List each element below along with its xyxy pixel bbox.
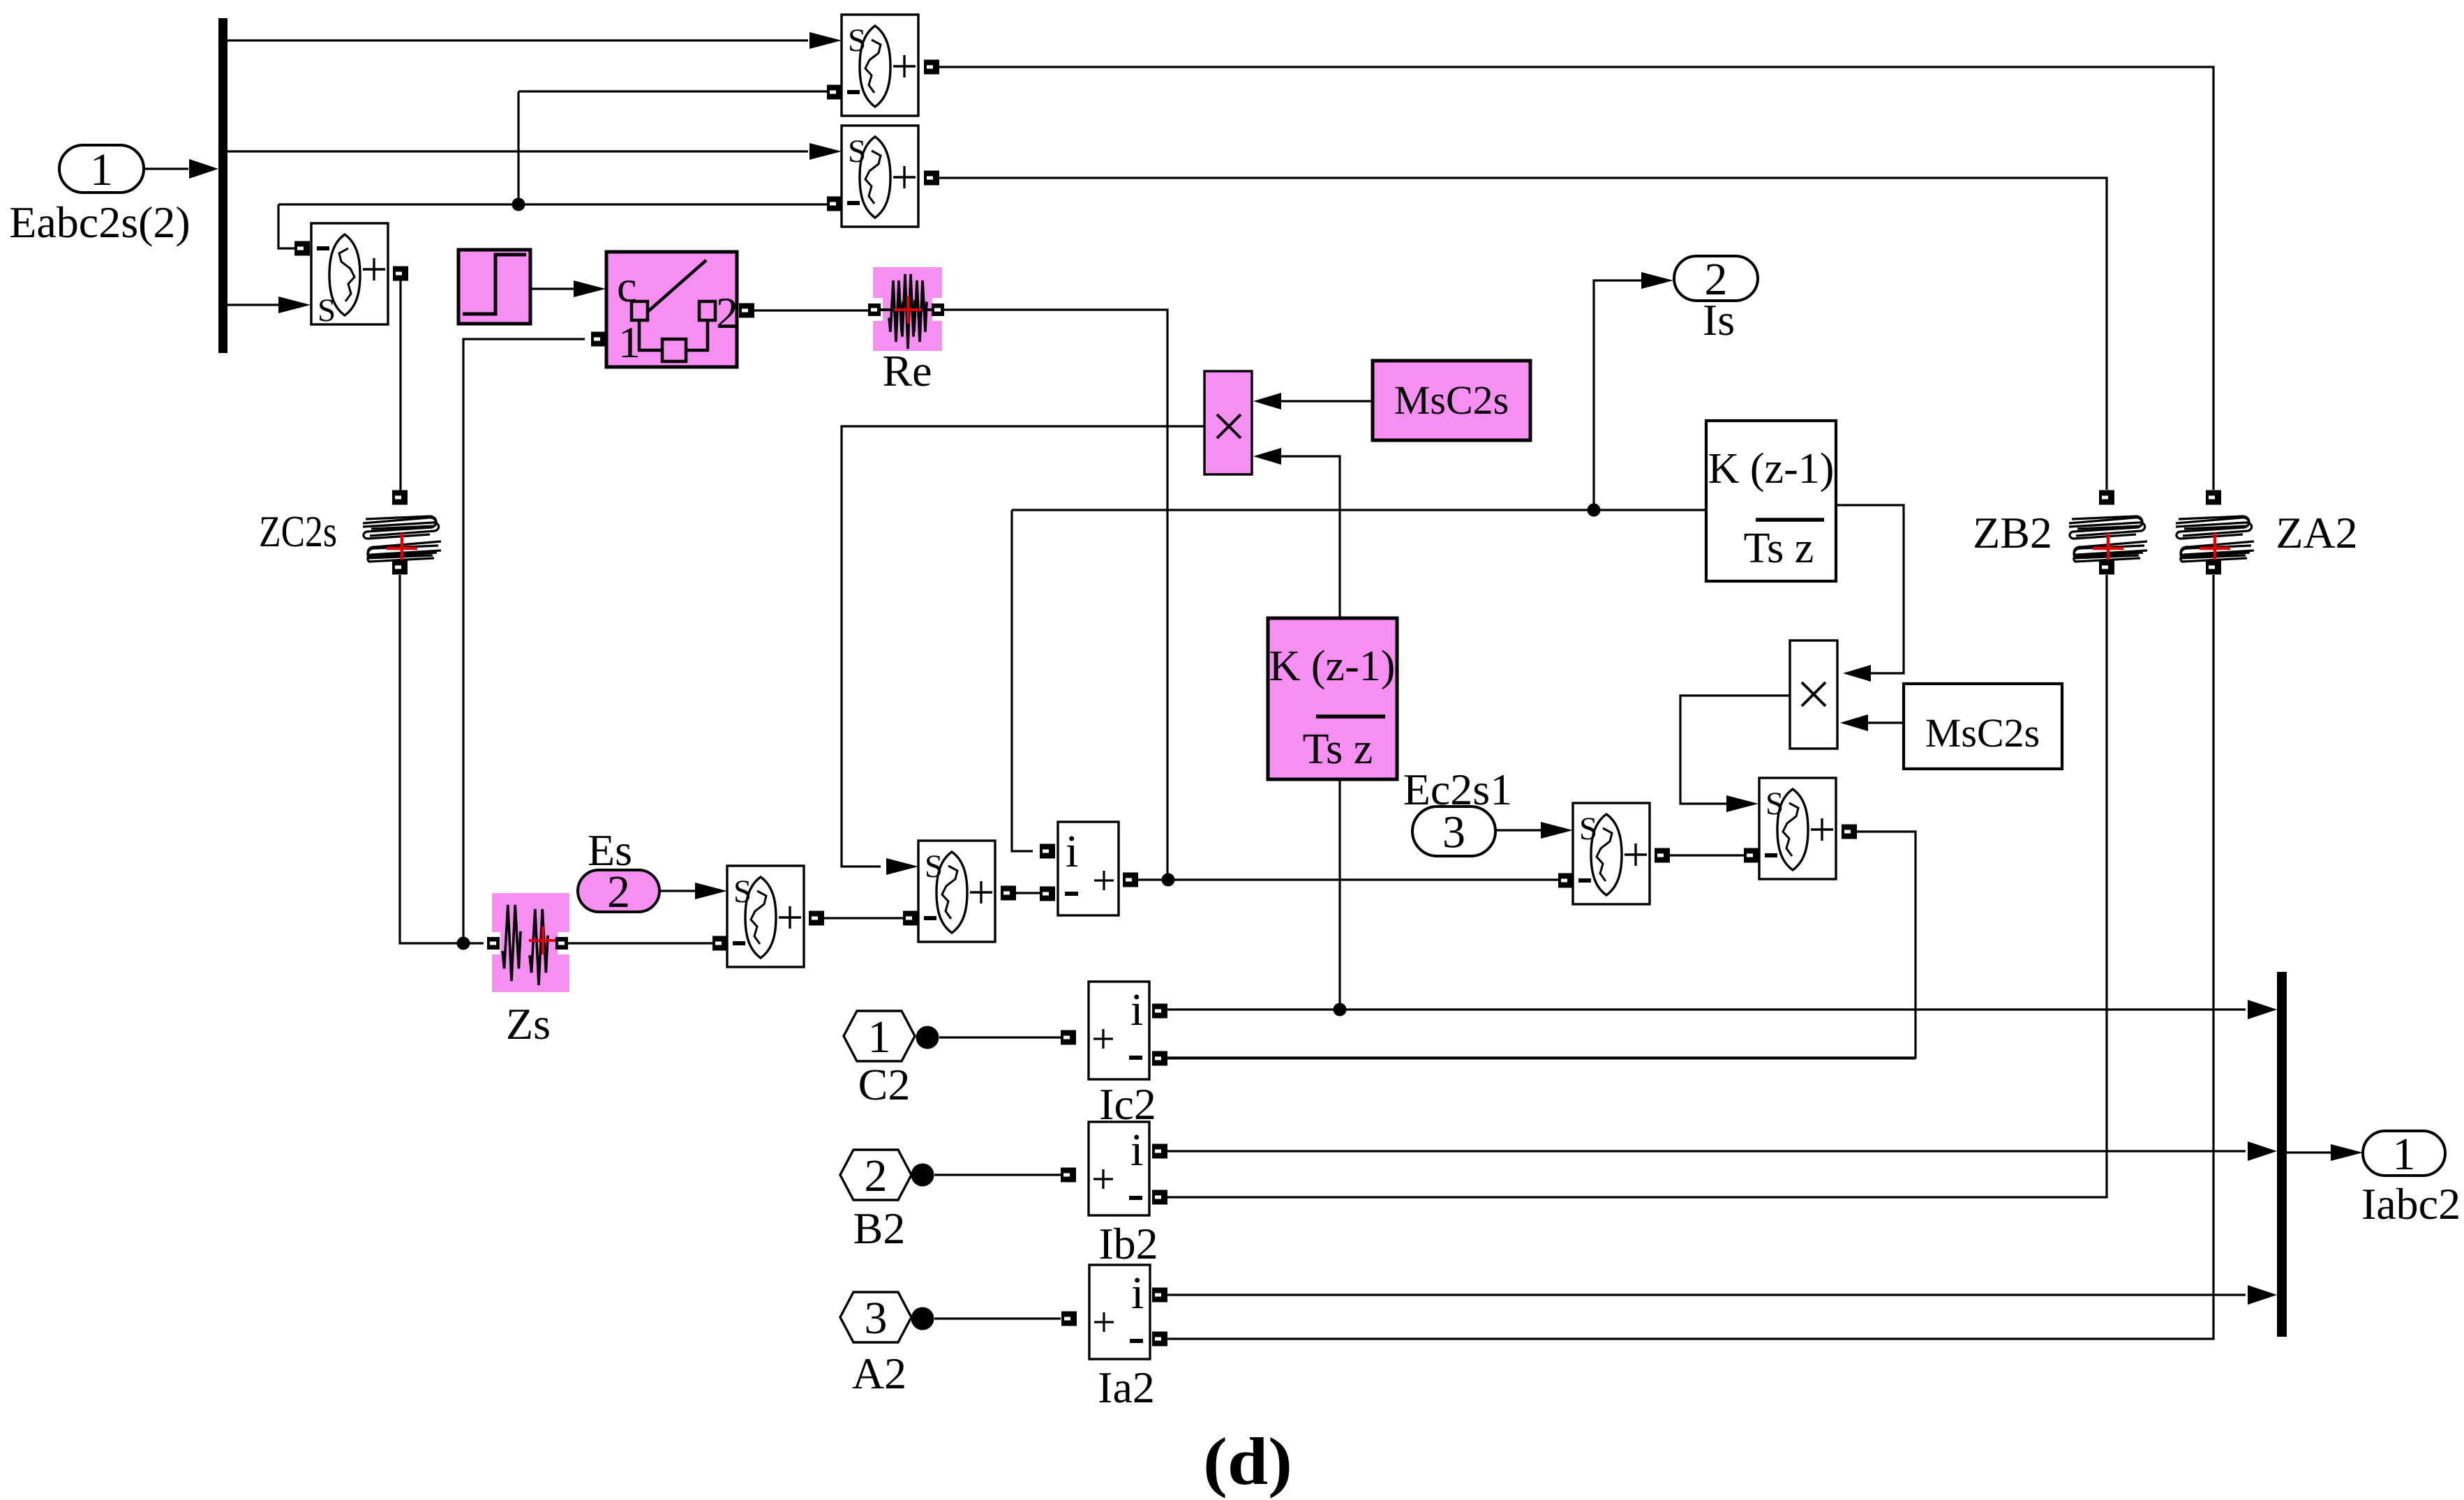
- junction: [1162, 873, 1175, 887]
- wire P2 out to sum S5: [1680, 696, 1790, 804]
- connection dot A2: [911, 1307, 934, 1330]
- wire: [824, 917, 905, 919]
- wire: [934, 1317, 1061, 1319]
- sum block S1: [842, 15, 918, 116]
- wire: [659, 890, 696, 892]
- junction: [457, 937, 470, 950]
- wire: [568, 942, 715, 944]
- wire: [1868, 721, 1904, 723]
- wire K1 out to P1: [1281, 456, 1340, 617]
- svg-text:i: i: [1130, 1125, 1143, 1176]
- current measure block I2 Ib2: [1089, 1122, 1149, 1215]
- port S6 minus: [712, 936, 728, 951]
- wire I3 i-out to mux: [1167, 1293, 2246, 1296]
- port switch out: [739, 303, 754, 318]
- svg-text:Ib2: Ib2: [1098, 1219, 1158, 1268]
- wire inport1 to demux: [144, 167, 188, 170]
- svg-text:i: i: [1066, 826, 1078, 877]
- svg-text:MsC2s: MsC2s: [1925, 710, 2040, 756]
- port oval Outport Es 2: [578, 867, 659, 917]
- port Zs in: [487, 937, 500, 950]
- wire: [227, 150, 808, 152]
- wire to sum S3 minus: [278, 204, 297, 248]
- port I3 i-out: [1152, 1288, 1167, 1303]
- svg-text:1: 1: [2393, 1129, 2416, 1180]
- wire: [227, 303, 281, 306]
- wire to outport Is: [1594, 280, 1644, 510]
- wire: [530, 287, 574, 290]
- wire node to K2: [1012, 509, 1706, 511]
- port oval Outport 1 Iabc2: [2363, 1129, 2445, 1180]
- svg-text:ZA2: ZA2: [2276, 508, 2357, 557]
- svg-text:3: 3: [1442, 807, 1465, 858]
- impedance icon ZA2: [2176, 516, 2254, 562]
- sum block S2: [842, 126, 918, 227]
- gain block MsC2s 1: [1373, 361, 1530, 440]
- svg-text:Zs: Zs: [506, 999, 551, 1049]
- sum block S3: [311, 223, 388, 329]
- port S3 out: [393, 267, 408, 281]
- port I4 in1: [1040, 844, 1055, 859]
- current measure block I3 Ia2: [1089, 1265, 1150, 1359]
- wire I2 i-out to mux: [1167, 1150, 2246, 1152]
- port S4 minus: [1558, 873, 1574, 888]
- svg-text:B2: B2: [853, 1203, 906, 1253]
- product block P2: [1790, 640, 1837, 749]
- port I1 i-out: [1152, 1004, 1167, 1019]
- connection dot B2: [911, 1164, 934, 1187]
- port S2 minus: [827, 197, 842, 211]
- gain block MsC2s 2: [1904, 684, 2062, 769]
- discrete derivative block K1 (pink): [1268, 618, 1397, 779]
- port oval Outport 2 Is: [1674, 254, 1758, 305]
- port I2 plus: [1061, 1168, 1076, 1183]
- impedance icon ZC2s: [363, 516, 441, 562]
- current measure block I4: [1058, 822, 1119, 915]
- Zs impedance block: [492, 893, 569, 992]
- junction: [1334, 1003, 1347, 1017]
- wire S5 out to I1 minus: [1167, 832, 1916, 1058]
- wire to sum S1 minus: [518, 90, 828, 92]
- wire I1 i-out to mux: [1167, 1008, 2246, 1010]
- port I1 minus-out: [1152, 1051, 1167, 1066]
- svg-text:Is: Is: [1703, 295, 1735, 345]
- product block P1: [1204, 371, 1252, 474]
- wire S2 out to ZB2: [939, 178, 2107, 490]
- port S7 minus: [903, 911, 918, 926]
- sum block S5: [1759, 778, 1836, 879]
- wire to switch input 2: [463, 339, 585, 943]
- svg-text:Ts z: Ts z: [1303, 726, 1373, 773]
- svg-text:Iabc2: Iabc2: [2361, 1179, 2461, 1229]
- wire: [1670, 854, 1745, 856]
- port oval Inport 3 Ec2s1: [1412, 807, 1495, 858]
- svg-text:ZC2s: ZC2s: [259, 507, 337, 556]
- port S1 out: [924, 60, 939, 75]
- wire: [1495, 829, 1543, 831]
- switch block: [606, 252, 738, 367]
- port S5 minus: [1744, 848, 1759, 863]
- wire I1 minus to S5 line: [1167, 1057, 1916, 1059]
- wire: [1281, 400, 1373, 402]
- port S5 out: [1842, 825, 1857, 839]
- wire to sum S2 minus: [278, 203, 828, 205]
- port S3 minus: [294, 241, 310, 256]
- port I3 minus-out: [1152, 1332, 1167, 1347]
- svg-text:2: 2: [716, 288, 738, 338]
- port S6 out: [809, 911, 824, 926]
- port switch in2: [591, 332, 606, 347]
- mux bar: [2277, 972, 2287, 1337]
- port I1 plus: [1061, 1030, 1076, 1045]
- wire: [1016, 892, 1040, 894]
- svg-text:i: i: [1130, 984, 1143, 1035]
- impedance icon ZB2: [2069, 516, 2147, 562]
- demux bar (selector): [218, 18, 227, 353]
- wire S3 out to ZC2s: [399, 280, 401, 491]
- port ZA2 bottom: [2206, 560, 2221, 575]
- port Zs out: [555, 937, 568, 950]
- sum block S4: [1573, 803, 1650, 904]
- input hexagon C2: [844, 1011, 915, 1063]
- port ZA2 top: [2206, 490, 2221, 505]
- wire: [939, 1036, 1061, 1038]
- port oval Inport 1 Eabc2s(2): [59, 144, 144, 195]
- svg-text:MsC2s: MsC2s: [1394, 377, 1509, 423]
- port Re in: [868, 303, 881, 316]
- svg-text:i: i: [1131, 1268, 1144, 1319]
- svg-text:ZB2: ZB2: [1973, 508, 2052, 557]
- input hexagon B2: [840, 1150, 911, 1201]
- port S4 out: [1655, 848, 1670, 863]
- port I4 out: [1123, 873, 1138, 887]
- svg-text:K (z-1): K (z-1): [1708, 445, 1835, 493]
- wire P1 out to sum S7: [842, 426, 1204, 867]
- port I3 plus: [1061, 1312, 1077, 1326]
- wire: [2287, 1151, 2332, 1153]
- Re impedance block: [873, 267, 942, 351]
- port I4 minus: [1040, 887, 1055, 901]
- wire Re to node: [944, 310, 1167, 880]
- connection dot C2: [916, 1026, 939, 1049]
- wire I2 minus to ZB2: [1167, 575, 2107, 1197]
- wire node down to I4: [1012, 510, 1033, 851]
- port I2 i-out: [1152, 1144, 1167, 1159]
- current measure block I1 Ic2: [1089, 982, 1149, 1079]
- port ZC2s bottom: [392, 560, 408, 575]
- svg-text:C2: C2: [858, 1060, 911, 1109]
- port S1 minus: [827, 85, 842, 100]
- svg-text:Eabc2s(2): Eabc2s(2): [9, 197, 190, 247]
- svg-text:3: 3: [865, 1293, 888, 1344]
- svg-text:Ts z: Ts z: [1744, 525, 1814, 572]
- port S2 out: [924, 171, 939, 186]
- svg-text:Re: Re: [882, 346, 932, 396]
- svg-text:1: 1: [868, 1012, 891, 1063]
- svg-text:(d): (d): [1203, 1424, 1292, 1499]
- wire I3 minus to ZA2: [1167, 575, 2213, 1339]
- svg-text:A2: A2: [852, 1349, 906, 1398]
- port ZB2 bottom: [2099, 560, 2114, 575]
- svg-text:Ia2: Ia2: [1098, 1363, 1155, 1412]
- wire K2 out to P2: [1836, 505, 1904, 673]
- discrete derivative block K2 (white): [1706, 421, 1836, 581]
- wire ZC2s to Zs: [400, 575, 484, 943]
- step source block: [458, 250, 530, 324]
- wire: [754, 309, 872, 311]
- port ZC2s top: [392, 490, 408, 505]
- port ZB2 top: [2099, 490, 2114, 505]
- svg-text:1: 1: [618, 317, 641, 367]
- port Re out: [932, 303, 944, 316]
- sum block S7: [918, 841, 995, 942]
- wire I4 out to S4 minus: [1138, 878, 1560, 880]
- junction: [1588, 504, 1601, 517]
- wire: [934, 1173, 1061, 1176]
- port S7 out: [1001, 886, 1016, 901]
- port I2 minus-out: [1152, 1190, 1167, 1205]
- svg-text:1: 1: [90, 144, 113, 195]
- sum block S6: [727, 866, 804, 967]
- svg-text:2: 2: [865, 1150, 888, 1201]
- input hexagon A2: [840, 1292, 911, 1344]
- svg-text:K (z-1): K (z-1): [1269, 643, 1396, 690]
- wire K1 in: [1338, 779, 1341, 1010]
- junction: [512, 198, 525, 211]
- wire: [227, 39, 808, 41]
- wire minus net vertical: [517, 91, 519, 204]
- svg-text:2: 2: [607, 867, 630, 917]
- wire S1 out to ZA2: [939, 67, 2213, 490]
